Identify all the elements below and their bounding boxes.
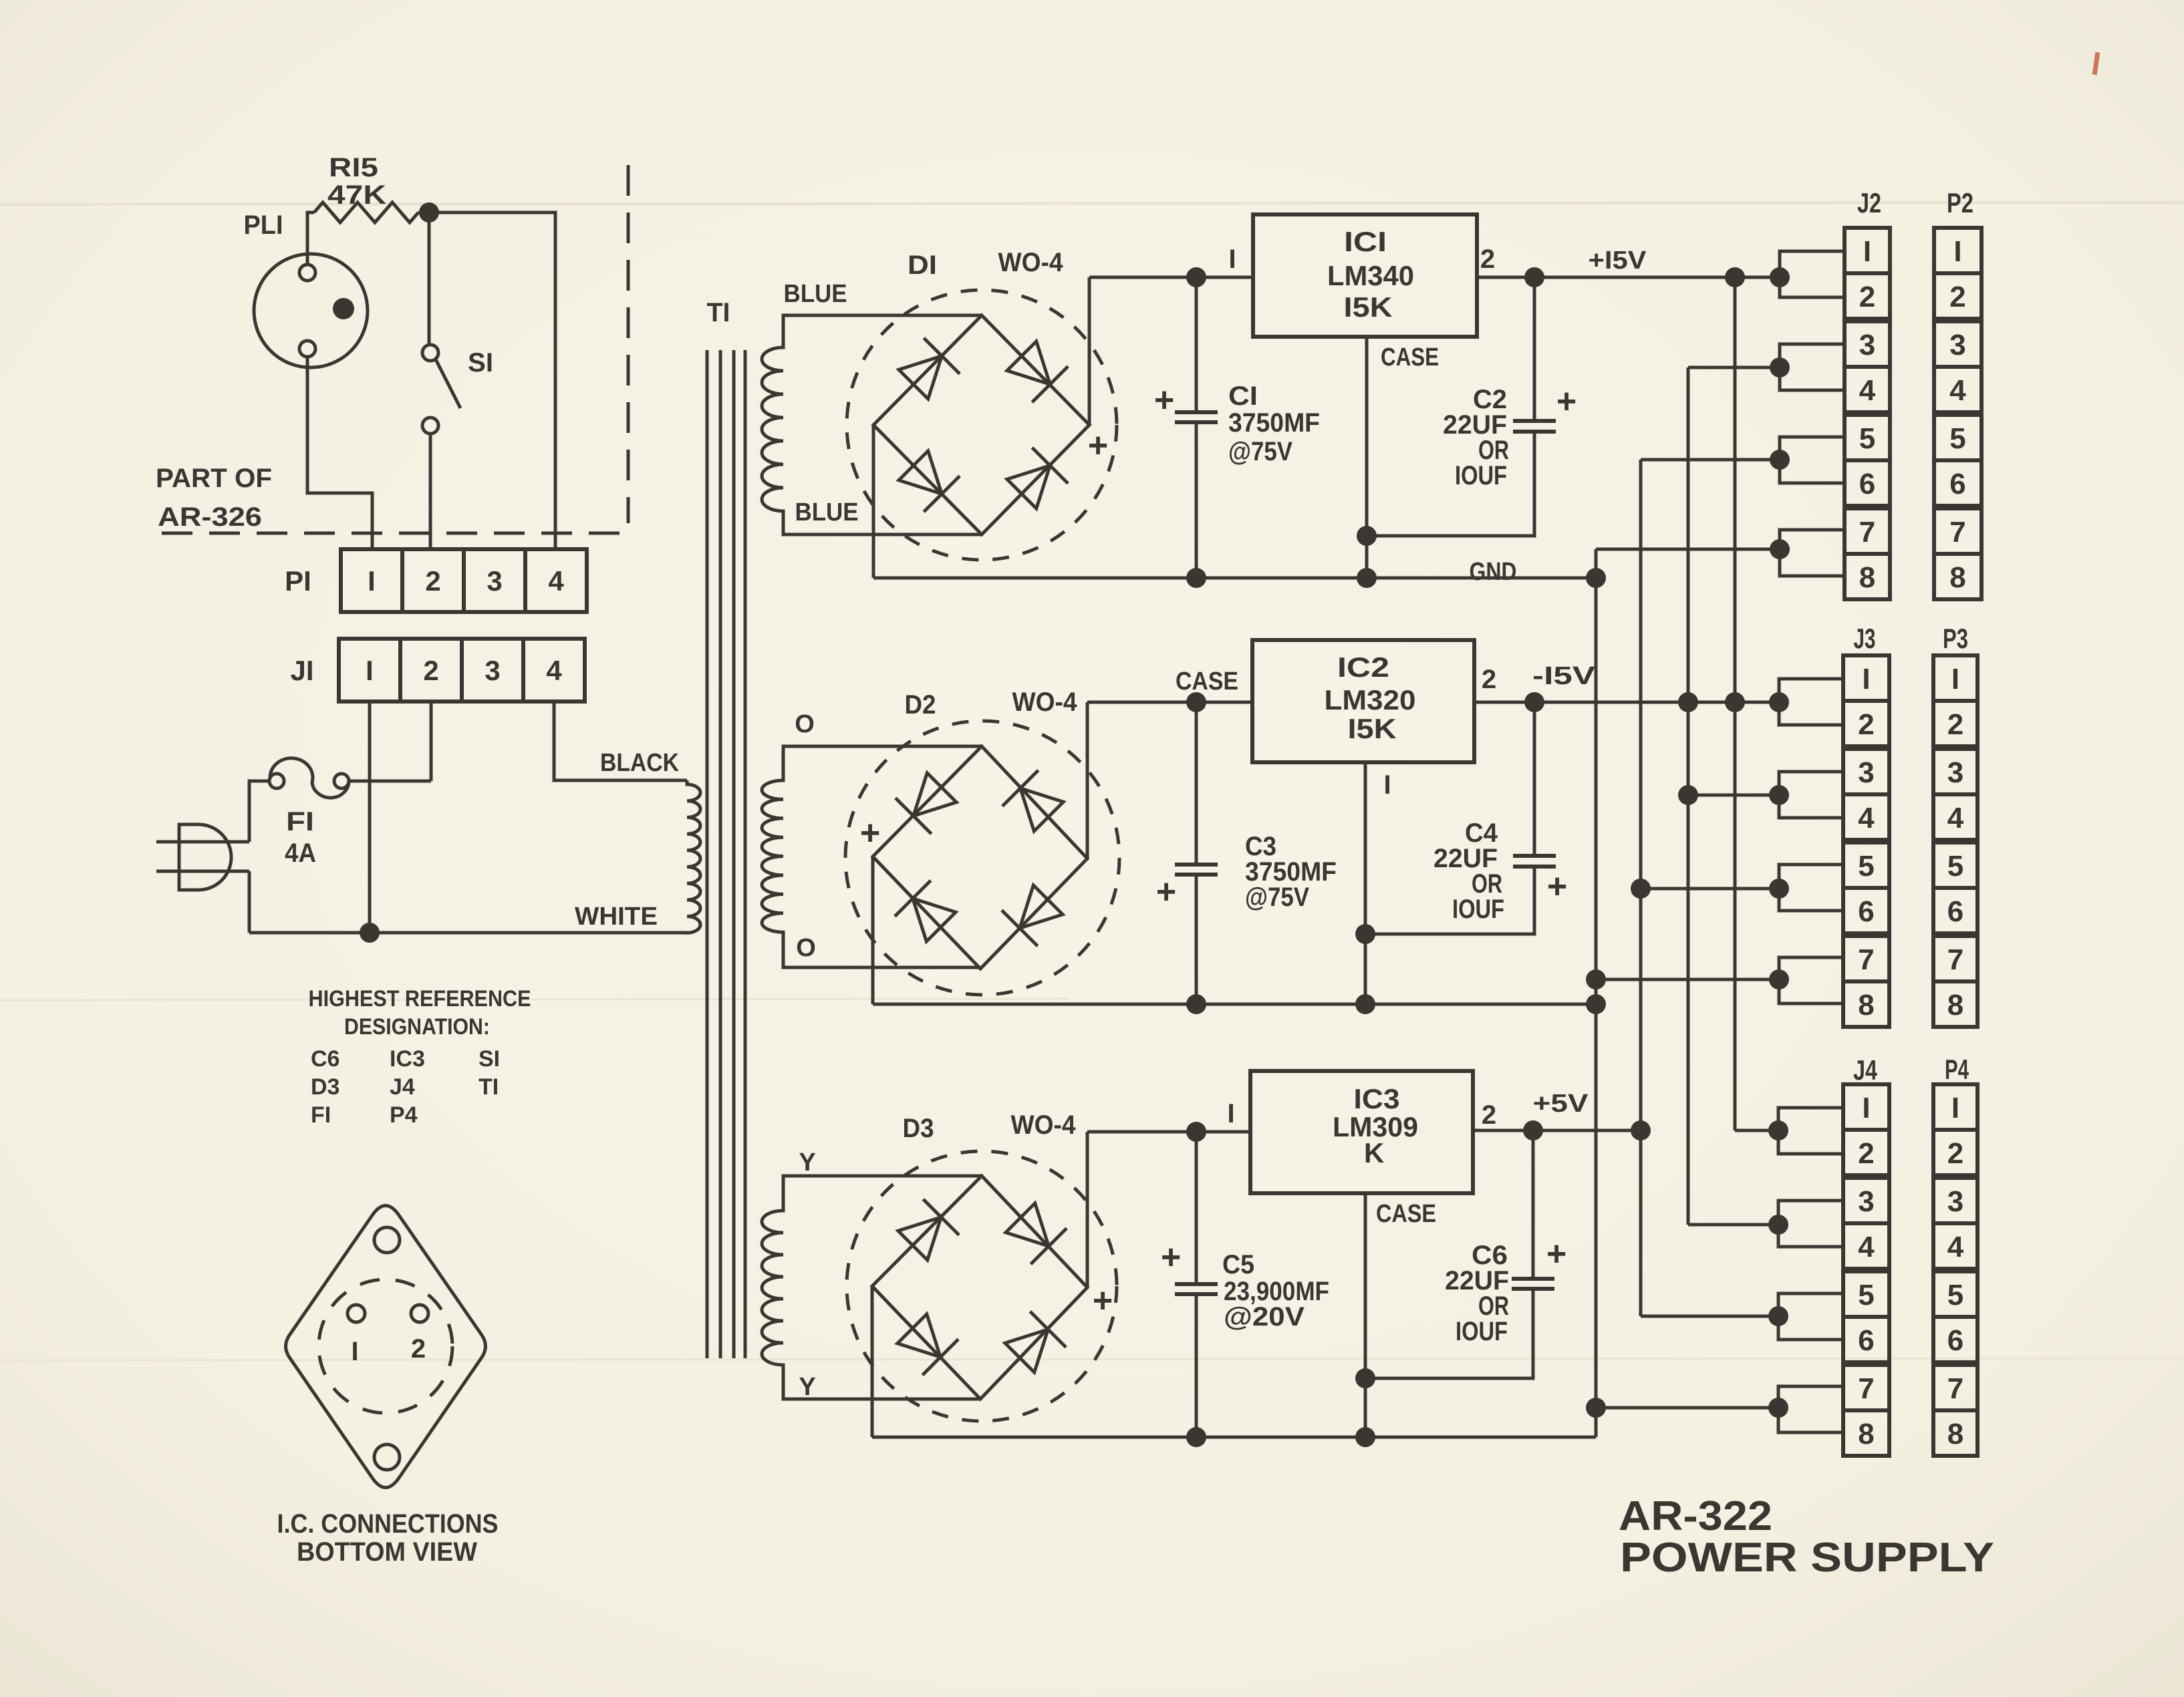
svg-text:K: K	[1364, 1137, 1384, 1169]
diode D2 upper-right	[1002, 770, 1067, 834]
svg-text:4: 4	[546, 655, 562, 686]
wire J3 pins 5-6 rail	[1641, 887, 1779, 891]
node +5V bus / J3 pins 5-6 rail	[1631, 879, 1651, 899]
node ground bus / J4 pins 7-8 rail	[1586, 1398, 1606, 1418]
diode D3 lower-right	[1002, 1312, 1066, 1376]
node +5V bus / +5V rail	[1631, 1120, 1651, 1140]
node C3 top	[1186, 692, 1206, 712]
svg-text:O: O	[796, 934, 816, 962]
wire +15V bus vertical	[1734, 277, 1737, 1130]
node C2 top	[1524, 267, 1544, 287]
svg-text:7: 7	[1947, 943, 1963, 976]
connector P3	[1933, 655, 1977, 746]
svg-text:@20V: @20V	[1224, 1302, 1305, 1332]
svg-text:2: 2	[1858, 708, 1874, 741]
svg-text:4: 4	[1858, 1231, 1875, 1263]
wire J3 pins 3-4 rail	[1688, 794, 1779, 797]
svg-text:5: 5	[1947, 1279, 1963, 1312]
svg-text:2: 2	[1859, 281, 1875, 313]
wire IC3 case down	[1364, 1193, 1367, 1437]
svg-text:C5: C5	[1222, 1250, 1254, 1279]
svg-text:D3: D3	[903, 1114, 934, 1143]
node IC1 case / ground	[1357, 568, 1377, 588]
svg-text:CI: CI	[1228, 381, 1258, 411]
wire -15V bus vertical	[1687, 367, 1690, 1225]
svg-text:4: 4	[1947, 802, 1964, 834]
diode D3 lower-left	[894, 1311, 958, 1375]
svg-text:POWER SUPPLY: POWER SUPPLY	[1620, 1535, 1994, 1581]
wire stub J3 pins 1-2	[1779, 679, 1843, 725]
capacitor C4	[1533, 702, 1536, 856]
svg-text:HIGHEST REFERENCE: HIGHEST REFERENCE	[309, 986, 531, 1012]
svg-text:2: 2	[425, 565, 440, 597]
svg-text:2: 2	[423, 655, 438, 686]
wire -15V rail from IC2 pin2	[1474, 701, 1779, 704]
svg-text:+: +	[1547, 867, 1567, 906]
connector P4	[1933, 1084, 1977, 1175]
wire stub J2 pins 5-6	[1780, 437, 1845, 483]
svg-text:5: 5	[1858, 1279, 1874, 1312]
svg-text:WO-4: WO-4	[1012, 687, 1078, 717]
svg-text:2: 2	[1947, 1137, 1963, 1170]
svg-text:6: 6	[1859, 468, 1875, 500]
svg-text:2: 2	[1480, 245, 1495, 274]
node IC2 pin1 / C4	[1355, 924, 1375, 944]
node ground bus / D2 plus rail	[1586, 994, 1606, 1014]
svg-text:47K: 47K	[327, 180, 386, 210]
wire fuse to J1 pin2	[349, 780, 431, 783]
svg-text:D3: D3	[311, 1074, 339, 1100]
svg-text:7: 7	[1858, 943, 1874, 976]
node ground bus / ground rail	[1586, 568, 1606, 588]
capacitor C5	[1195, 1132, 1198, 1284]
connector J1	[339, 639, 585, 702]
svg-text:P2: P2	[1947, 187, 1973, 218]
regulator IC3	[1250, 1071, 1473, 1193]
wire stub J4 pins 7-8	[1778, 1386, 1843, 1432]
svg-text:C6: C6	[311, 1046, 339, 1072]
svg-text:8: 8	[1859, 561, 1875, 594]
svg-text:3: 3	[487, 565, 502, 597]
svg-text:IOUF: IOUF	[1455, 461, 1507, 490]
svg-text:@75V: @75V	[1228, 437, 1292, 466]
regulator IC1	[1253, 214, 1477, 337]
svg-text:Y: Y	[799, 1148, 815, 1177]
svg-text:6: 6	[1858, 1324, 1874, 1357]
wire D2 to IC2 input	[1087, 701, 1252, 704]
wire S1 to P1 pin2	[429, 434, 432, 549]
wire D2 minus output up	[1086, 702, 1089, 859]
svg-text:I: I	[368, 565, 376, 597]
capacitor C1	[1195, 277, 1198, 412]
svg-text:PI: PI	[285, 565, 311, 597]
node J1 pin1 / white junction	[360, 923, 380, 943]
svg-text:I5K: I5K	[1344, 291, 1393, 323]
svg-text:5: 5	[1859, 422, 1875, 455]
svg-text:+: +	[1154, 381, 1174, 420]
svg-text:8: 8	[1858, 989, 1874, 1022]
wire D1 plus output up	[1088, 277, 1091, 425]
node C3 bottom	[1186, 994, 1206, 1014]
TO-3 mounting hole bottom	[374, 1444, 400, 1470]
wire stub J4 pins 5-6	[1778, 1293, 1843, 1340]
svg-text:I: I	[1862, 663, 1870, 696]
svg-text:J4: J4	[390, 1074, 415, 1100]
svg-text:J3: J3	[1854, 623, 1876, 654]
svg-text:SI: SI	[479, 1046, 500, 1072]
wire D1 minus output down	[872, 425, 875, 578]
svg-text:TI: TI	[707, 298, 730, 327]
svg-text:4: 4	[1949, 374, 1966, 407]
svg-text:LM320: LM320	[1325, 684, 1416, 716]
svg-text:3: 3	[1859, 329, 1875, 361]
wire +5V rail from IC3 pin2	[1473, 1129, 1641, 1132]
svg-text:2: 2	[1482, 665, 1496, 694]
svg-text:CASE: CASE	[1176, 667, 1238, 696]
svg-text:I: I	[1951, 1092, 1959, 1124]
wire J4 pins 7-8 rail	[1596, 1406, 1778, 1410]
svg-text:4: 4	[1947, 1231, 1964, 1263]
TO-3 pin 1	[348, 1305, 365, 1322]
wire R15 junction to P1 pin4	[418, 212, 555, 549]
svg-text:6: 6	[1858, 895, 1874, 928]
capacitor C6	[1532, 1130, 1535, 1279]
node +15V bus / -15V rail	[1725, 692, 1745, 712]
svg-text:J2: J2	[1857, 187, 1881, 218]
AC plug prong 2	[156, 870, 249, 873]
wire stub J2 pins 3-4	[1780, 344, 1845, 390]
node +15V bus / +15V rail	[1725, 267, 1745, 287]
wire PL1 pin2 to P1 pin1	[307, 357, 372, 549]
diode D1 upper-right	[1004, 338, 1068, 402]
svg-text:O: O	[795, 710, 815, 738]
dashed boundary of AR-326	[627, 165, 630, 523]
svg-text:J4: J4	[1853, 1054, 1877, 1086]
svg-text:BLUE: BLUE	[795, 498, 859, 526]
wire +15V rail from IC1 pin2	[1477, 276, 1780, 279]
capacitor C2	[1533, 277, 1536, 421]
connector J2	[1845, 228, 1890, 319]
connector J3	[1843, 655, 1889, 746]
svg-text:2: 2	[1858, 1137, 1874, 1170]
wire J1 pin1 to white line	[368, 702, 372, 933]
node C6 top	[1523, 1120, 1543, 1140]
wire ground rail section 3	[872, 1436, 1596, 1439]
wire ground bus vertical	[1595, 549, 1598, 1437]
svg-text:2: 2	[1947, 708, 1963, 741]
svg-text:3: 3	[1858, 1185, 1874, 1218]
svg-text:5: 5	[1947, 850, 1963, 883]
svg-text:TI: TI	[479, 1074, 499, 1100]
svg-text:DESIGNATION:: DESIGNATION:	[344, 1014, 490, 1040]
connector J4	[1843, 1084, 1889, 1175]
wire J1 pin2 down to fuse	[430, 702, 433, 781]
node C1 bottom	[1186, 568, 1206, 588]
svg-text:AR-322: AR-322	[1619, 1493, 1772, 1539]
wire stub J2 pins 7-8	[1780, 530, 1845, 576]
svg-text:I: I	[1228, 245, 1236, 274]
bridge rectifier D3 diamond	[872, 1176, 1087, 1399]
node IC2 pin1 / rail	[1355, 994, 1375, 1014]
node C4 top	[1524, 692, 1544, 712]
wire IC1 case to ground	[1365, 337, 1369, 578]
svg-text:+: +	[1161, 1238, 1181, 1277]
resistor R15	[314, 202, 418, 222]
svg-text:D2: D2	[905, 690, 936, 720]
svg-text:+: +	[1088, 426, 1108, 465]
node IC1 case / C2	[1357, 526, 1377, 546]
transformer T1 secondary winding blue	[762, 315, 982, 534]
svg-text:IC3: IC3	[390, 1046, 425, 1072]
svg-text:+: +	[1093, 1281, 1113, 1320]
svg-text:4A: 4A	[285, 838, 316, 868]
wire fuse to plug riser	[249, 781, 269, 842]
node -15V bus / J3 pins 3-4 rail	[1678, 785, 1698, 805]
svg-text:5: 5	[1949, 422, 1965, 455]
svg-text:8: 8	[1947, 1418, 1963, 1450]
svg-text:I: I	[1863, 235, 1871, 268]
svg-text:FI: FI	[311, 1102, 331, 1128]
connector P2	[1934, 228, 1982, 319]
wire +15V rail from D1 to IC1 pin1	[1089, 276, 1253, 279]
wire D3 minus output down	[871, 1286, 874, 1437]
wire PL1 pin1 to R15	[307, 212, 314, 265]
diode D1 lower-right	[1004, 448, 1068, 512]
transformer T1 secondary winding Y	[762, 1176, 982, 1399]
svg-text:4: 4	[1859, 374, 1876, 407]
svg-text:6: 6	[1949, 468, 1965, 500]
wire +5V bus vertical	[1639, 460, 1643, 1316]
wire J4 pins 3-4 rail	[1688, 1223, 1778, 1227]
svg-text:2: 2	[1482, 1100, 1496, 1130]
svg-text:PLI: PLI	[244, 210, 283, 240]
diode D2 upper-left	[896, 770, 960, 834]
TO-3 pin 2	[411, 1305, 428, 1322]
capacitor C3	[1195, 702, 1198, 865]
svg-text:7: 7	[1949, 516, 1965, 549]
wire black: J1 pin4 to transformer primary	[554, 702, 687, 780]
wire D2 plus rail to ground bus	[873, 1003, 1596, 1006]
svg-text:DI: DI	[908, 251, 937, 280]
svg-text:7: 7	[1859, 516, 1875, 549]
node ground bus / J3 pins 7-8 rail	[1586, 969, 1606, 989]
svg-text:+5V: +5V	[1533, 1090, 1589, 1118]
wire ground rail section 1	[873, 577, 1596, 580]
svg-text:PART OF: PART OF	[156, 464, 272, 493]
svg-text:BLACK: BLACK	[600, 749, 679, 777]
svg-text:3750MF: 3750MF	[1228, 408, 1320, 438]
svg-text:IOUF: IOUF	[1452, 895, 1504, 924]
svg-text:+: +	[1556, 382, 1577, 421]
svg-text:7: 7	[1947, 1372, 1963, 1405]
svg-text:IC3: IC3	[1354, 1083, 1400, 1114]
wire plug to white line	[248, 871, 251, 933]
svg-text:+I5V: +I5V	[1589, 247, 1647, 275]
svg-text:WHITE: WHITE	[575, 903, 658, 931]
svg-text:@75V: @75V	[1245, 883, 1309, 912]
wire D3 plus output up	[1086, 1132, 1089, 1287]
fuse F1	[269, 774, 284, 788]
svg-text:I: I	[351, 1337, 358, 1366]
wire IC2 pin1 down to D2 plus rail	[1364, 762, 1367, 1004]
D1 dashed circle	[847, 290, 1117, 560]
connector PL1	[254, 254, 368, 367]
diode D1 upper-left	[896, 338, 960, 402]
svg-text:GND: GND	[1470, 558, 1517, 586]
connector P1	[341, 549, 587, 612]
svg-text:SI: SI	[468, 348, 493, 377]
wire stub J2 pins 1-2	[1780, 251, 1845, 297]
svg-text:6: 6	[1947, 895, 1963, 928]
svg-text:3: 3	[485, 655, 500, 686]
svg-text:2: 2	[1949, 281, 1965, 313]
node IC3 case / C6	[1355, 1368, 1375, 1388]
diode D2 lower-left	[895, 881, 959, 945]
svg-text:I: I	[1383, 770, 1391, 800]
regulator IC2	[1252, 640, 1474, 762]
diode D3 upper-right	[1002, 1200, 1067, 1264]
wire J2 pins 7-8 rail	[1596, 548, 1780, 551]
svg-text:BOTTOM VIEW: BOTTOM VIEW	[297, 1537, 477, 1567]
svg-text:WO-4: WO-4	[1011, 1110, 1077, 1140]
node R15/S1 junction	[419, 202, 439, 222]
svg-text:-I5V: -I5V	[1532, 662, 1596, 690]
AC plug body	[179, 824, 231, 890]
TO-3 dashed case circle	[319, 1279, 452, 1413]
diode D1 lower-left	[896, 448, 960, 512]
wire D2 plus output down	[871, 857, 875, 1004]
svg-text:AR-326: AR-326	[158, 502, 262, 532]
wire white line to transformer primary	[249, 931, 687, 935]
svg-text:IC2: IC2	[1337, 651, 1389, 683]
wire J3 pins 7-8 rail	[1596, 978, 1779, 981]
wire J2 pins 3-4 rail	[1688, 366, 1780, 369]
svg-text:P4: P4	[1945, 1054, 1969, 1085]
D2 dashed circle	[845, 721, 1119, 995]
svg-text:+: +	[1156, 873, 1176, 911]
transformer T1 secondary winding O	[762, 746, 982, 967]
svg-text:8: 8	[1858, 1418, 1874, 1450]
svg-text:RI5: RI5	[329, 153, 378, 182]
bridge rectifier D1 diamond	[873, 315, 1089, 534]
wire stub J3 pins 3-4	[1779, 772, 1843, 818]
wire J4 pins 5-6 rail	[1641, 1315, 1778, 1318]
svg-text:5: 5	[1858, 850, 1874, 883]
svg-text:8: 8	[1947, 989, 1963, 1022]
diode D2 lower-right	[1002, 882, 1066, 946]
svg-text:WO-4: WO-4	[998, 248, 1064, 277]
svg-text:2: 2	[411, 1334, 426, 1364]
svg-text:I: I	[1953, 235, 1961, 268]
wire stub J4 pins 1-2	[1778, 1108, 1843, 1154]
switch S1	[422, 345, 438, 361]
node C1 top	[1186, 267, 1206, 287]
svg-text:+: +	[860, 814, 880, 853]
svg-text:I.C. CONNECTIONS: I.C. CONNECTIONS	[277, 1509, 499, 1539]
svg-text:3: 3	[1949, 329, 1965, 361]
svg-text:6: 6	[1947, 1324, 1963, 1357]
svg-text:+: +	[1546, 1235, 1566, 1273]
wire J4 pins 1-2 rail	[1735, 1129, 1778, 1132]
svg-text:ICI: ICI	[1344, 226, 1387, 257]
svg-text:BLUE: BLUE	[784, 280, 847, 308]
wire stub J4 pins 3-4	[1778, 1201, 1843, 1247]
AC plug prong 1	[156, 840, 249, 844]
node IC3 case / ground	[1355, 1427, 1375, 1447]
svg-text:8: 8	[1949, 561, 1965, 594]
D3 dashed circle	[847, 1151, 1117, 1421]
wire stub J3 pins 7-8	[1779, 957, 1843, 1004]
svg-text:I: I	[1862, 1092, 1870, 1124]
red speck on paper	[2092, 52, 2100, 75]
svg-text:IOUF: IOUF	[1456, 1317, 1508, 1346]
svg-text:I5K: I5K	[1348, 713, 1397, 744]
node C5 top	[1186, 1122, 1206, 1142]
transformer T1 primary winding	[687, 780, 700, 933]
IC package TO-3 bottom view	[286, 1206, 486, 1488]
diode D3 upper-left	[895, 1199, 959, 1263]
wire D3 to IC3 pin1	[1087, 1130, 1250, 1134]
svg-text:7: 7	[1858, 1372, 1874, 1405]
svg-text:P3: P3	[1943, 623, 1968, 654]
svg-text:JI: JI	[290, 655, 313, 686]
svg-text:I: I	[366, 655, 374, 686]
svg-text:3: 3	[1947, 1185, 1963, 1218]
bridge rectifier D2 diamond	[873, 746, 1087, 969]
TO-3 mounting hole top	[374, 1227, 400, 1253]
svg-text:LM340: LM340	[1327, 260, 1414, 291]
wire stub J3 pins 5-6	[1779, 865, 1843, 911]
svg-text:Y: Y	[799, 1373, 815, 1401]
node C5 bottom	[1186, 1427, 1206, 1447]
wire junction to S1	[428, 212, 431, 345]
transformer T1 core	[706, 350, 709, 1358]
wire J2 pins 5-6 rail	[1641, 458, 1780, 462]
svg-text:CASE: CASE	[1381, 343, 1439, 371]
svg-text:FI: FI	[286, 807, 314, 836]
svg-text:I: I	[1227, 1099, 1234, 1128]
svg-text:3: 3	[1858, 756, 1874, 789]
svg-text:I: I	[1951, 663, 1959, 696]
svg-text:CASE: CASE	[1376, 1200, 1436, 1228]
node -15V bus / -15V rail	[1678, 692, 1698, 712]
svg-text:4: 4	[548, 565, 564, 597]
svg-text:3: 3	[1947, 756, 1963, 789]
svg-text:4: 4	[1858, 802, 1875, 834]
svg-text:P4: P4	[390, 1102, 418, 1128]
